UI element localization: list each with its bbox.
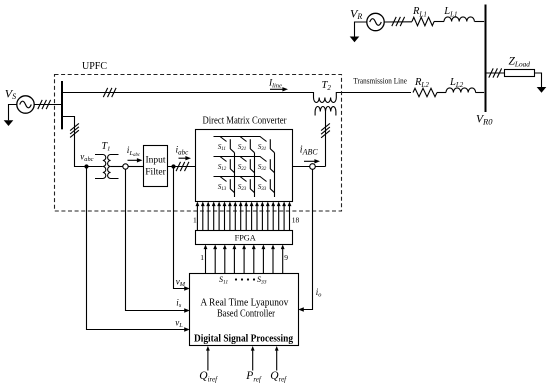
transformer T1 primary winding bbox=[95, 155, 106, 179]
ground at VR bbox=[350, 37, 360, 43]
node v_abc bbox=[84, 164, 88, 168]
wire bus to Z_Load bbox=[487, 72, 505, 74]
wire i_ABC up to T2 with three-phase marks bbox=[325, 112, 327, 167]
current probe node i_ABC bbox=[310, 164, 316, 170]
switch S13 bbox=[220, 177, 235, 193]
input filter box bbox=[144, 146, 168, 187]
arrow i_o into controller bbox=[298, 307, 304, 311]
inductor LL1 bbox=[444, 17, 474, 22]
arrow P_ref input bbox=[252, 350, 254, 371]
9 switching signal lines DSP to FPGA bbox=[204, 245, 285, 274]
switch S23 bbox=[240, 177, 255, 193]
svg-text:Based Controller: Based Controller bbox=[217, 309, 276, 320]
svg-text:Direct Matrix Converter: Direct Matrix Converter bbox=[203, 116, 288, 127]
switch S21 bbox=[240, 137, 255, 153]
svg-text:9: 9 bbox=[284, 253, 288, 262]
arrow v_M into controller bbox=[184, 286, 190, 290]
wire filter to converter bbox=[168, 166, 196, 168]
switch S12 bbox=[220, 157, 235, 173]
wire sending bus to T2 (transmission line) bbox=[63, 92, 314, 94]
converter input row line 3 bbox=[214, 176, 261, 178]
wire VS to sending bus bbox=[34, 104, 61, 106]
resistor RL2 bbox=[413, 88, 437, 96]
wire v_abc node to T1 bbox=[87, 166, 103, 168]
converter input row line 2 bbox=[214, 156, 261, 158]
UPFC dashed boundary bbox=[55, 75, 342, 212]
arrow i_Labc bbox=[128, 159, 139, 161]
wire RL2 to LL2 bbox=[437, 92, 446, 94]
switch S22 bbox=[240, 157, 255, 173]
load impedance Z_Load bbox=[505, 70, 535, 77]
three-phase marks on load wire bbox=[489, 68, 493, 77]
18 gate drive lines FPGA to matrix converter bbox=[196, 202, 292, 231]
wire VS to ground bbox=[9, 105, 17, 121]
svg-text:1: 1 bbox=[200, 253, 204, 262]
wire RL1 to LL1 bbox=[434, 21, 444, 23]
receiving-end bus VR0 bbox=[485, 5, 487, 113]
arrow Q_ref input bbox=[276, 350, 278, 371]
arrow Q_iref input bbox=[207, 350, 209, 371]
svg-text:UPFC: UPFC bbox=[82, 61, 107, 72]
ground at Z_Load bbox=[537, 87, 547, 93]
svg-text:1: 1 bbox=[193, 216, 197, 225]
direct matrix converter box bbox=[196, 130, 293, 202]
sending-end bus bbox=[61, 81, 63, 129]
switch S11 bbox=[220, 137, 235, 153]
svg-text:Digital Signal Processing: Digital Signal Processing bbox=[194, 334, 294, 345]
wire converter output to i_ABC node bbox=[293, 166, 326, 168]
arrow i_ABC bbox=[304, 160, 316, 162]
wire LL2 to receiving bus bbox=[476, 92, 485, 94]
three-phase marks on shunt branch bbox=[70, 123, 79, 130]
voltage source VR bbox=[367, 13, 384, 30]
wire i_Labc node to input filter bbox=[128, 166, 144, 168]
wire i_o feedback bbox=[303, 169, 313, 309]
wire LL1 to receiving bus bbox=[475, 21, 485, 23]
FPGA box bbox=[196, 231, 293, 245]
three-phase marks on transmission line bbox=[103, 88, 107, 97]
three-phase marks on VR wire bbox=[392, 17, 396, 26]
node i_abc bbox=[171, 164, 175, 168]
svg-text:Transmission Line: Transmission Line bbox=[353, 76, 407, 86]
transformer T1 secondary winding bbox=[108, 155, 119, 179]
wire v_M feedback bbox=[174, 167, 186, 289]
wire VR to RL1 bbox=[384, 21, 412, 23]
svg-text:18: 18 bbox=[292, 216, 300, 225]
DSP controller box bbox=[190, 274, 299, 346]
wire T1 to i_Labc node bbox=[111, 166, 123, 168]
converter output column line 3 bbox=[274, 153, 276, 197]
svg-text:Input: Input bbox=[145, 155, 165, 165]
arrow i_abc bbox=[179, 157, 188, 159]
arrow v_L into controller bbox=[184, 327, 190, 331]
resistor RL1 bbox=[412, 17, 434, 25]
wire i_s feedback bbox=[126, 169, 186, 310]
three-phase marks converter input bbox=[176, 162, 180, 171]
converter output column line 2 bbox=[254, 153, 256, 197]
arrow i_s into controller bbox=[184, 308, 190, 312]
transformer T2 series winding bbox=[314, 92, 337, 103]
ground at VS bbox=[4, 120, 14, 126]
converter input row line 1 bbox=[214, 136, 261, 138]
svg-text:FPGA: FPGA bbox=[235, 233, 256, 242]
switch S32 bbox=[260, 157, 275, 173]
wire T2 to RL2 bbox=[336, 92, 411, 94]
current probe node i_Labc bbox=[123, 164, 128, 169]
converter output column line 1 bbox=[234, 153, 236, 197]
wire bus to T1 shunt branch bbox=[63, 117, 87, 167]
voltage source VS bbox=[17, 96, 34, 113]
switch S31 bbox=[260, 137, 275, 153]
inductor LL2 bbox=[446, 88, 476, 93]
arrow I_line bbox=[270, 88, 284, 90]
transformer T2 secondary winding bbox=[315, 106, 336, 115]
wire Z_Load to ground bbox=[535, 73, 542, 87]
wire v_L feedback bbox=[87, 169, 186, 330]
svg-text:A Real Time Lyapunov: A Real Time Lyapunov bbox=[200, 298, 288, 309]
switch S33 bbox=[260, 177, 275, 193]
three-phase marks on VS wire bbox=[38, 100, 42, 109]
wire VR to ground bbox=[355, 22, 367, 37]
svg-text:Filter: Filter bbox=[145, 167, 166, 177]
